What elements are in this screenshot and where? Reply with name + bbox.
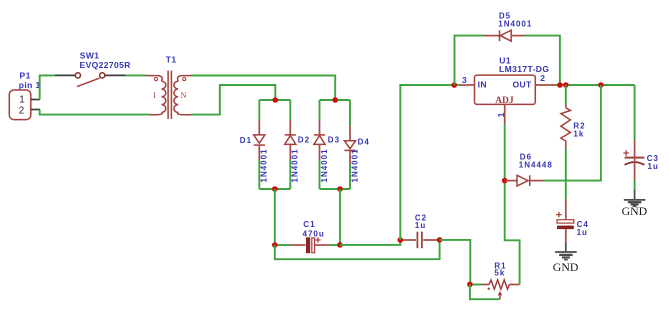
junction at U1 IN bbox=[451, 82, 457, 88]
wire D6 cathode up to OUT bbox=[544, 85, 601, 181]
junction C2 right bbox=[437, 237, 443, 243]
svg-text:D3: D3 bbox=[328, 136, 340, 145]
capacitor C1 bbox=[275, 237, 340, 253]
svg-text:1u: 1u bbox=[415, 221, 426, 230]
wire D3/D4 top rail bbox=[320, 99, 351, 101]
svg-text:1N4001: 1N4001 bbox=[350, 148, 359, 182]
wire bridge left output down bbox=[274, 189, 276, 245]
svg-text:IN: IN bbox=[478, 80, 487, 90]
junction D5 at OUT bbox=[557, 82, 563, 88]
svg-text:GND: GND bbox=[553, 260, 579, 274]
wire D1/D2 top rail bbox=[259, 99, 290, 101]
diode D3 bbox=[314, 100, 325, 189]
switch SW1 bbox=[55, 73, 126, 87]
capacitor C4 bbox=[556, 199, 574, 252]
svg-text:N: N bbox=[181, 91, 187, 100]
resistor R2 bbox=[561, 85, 571, 199]
svg-text:C1: C1 bbox=[303, 220, 315, 229]
junction R1 left bbox=[467, 282, 473, 288]
wire T1 bottom to D1/D2 rail bbox=[191, 85, 275, 115]
svg-text:1N4001: 1N4001 bbox=[498, 20, 532, 29]
wire OUT to C3 bbox=[634, 85, 636, 140]
U1 pin 2 stub bbox=[535, 84, 555, 86]
transformer T1 bbox=[146, 71, 191, 120]
diode D5 bbox=[484, 30, 525, 41]
wire C2 right to R1 bbox=[440, 240, 471, 285]
junction C1 right bbox=[337, 242, 343, 248]
junction C1 left bbox=[272, 242, 278, 248]
wire C2 left node up to U1 IN bbox=[400, 85, 454, 240]
wire IN node to U1 pin3 bbox=[454, 84, 461, 86]
wire OUT rail bbox=[555, 84, 635, 86]
svg-text:1: 1 bbox=[19, 95, 24, 106]
wire D1/D2 bottom rail bbox=[259, 188, 290, 190]
ground symbol below C4 bbox=[553, 252, 579, 274]
connector P1 bbox=[9, 90, 31, 120]
svg-text:I: I bbox=[153, 91, 156, 100]
junction on D1/D2 bottom rail bbox=[272, 186, 278, 192]
capacitor C3 bbox=[623, 140, 644, 191]
wire D5 to OUT node bbox=[525, 36, 560, 85]
svg-text:1N4001: 1N4001 bbox=[260, 148, 269, 182]
wire SW1 to T1 bbox=[125, 74, 146, 76]
capacitor C2 bbox=[400, 232, 439, 249]
svg-text:2: 2 bbox=[540, 73, 545, 83]
svg-text:1u: 1u bbox=[577, 228, 588, 237]
wire P1 pin2 to bottom rail bbox=[40, 110, 151, 115]
ground symbol below C3 bbox=[622, 190, 648, 218]
wire R1 wiper return bbox=[470, 284, 500, 299]
wire C1 to C2 bbox=[340, 240, 400, 245]
op-amp regulator U1 bbox=[475, 75, 536, 106]
diode D4 bbox=[344, 100, 355, 189]
svg-text:3: 3 bbox=[462, 75, 467, 85]
P1 pin 1 stub bbox=[31, 99, 40, 101]
wire negative return rail bbox=[275, 240, 440, 259]
diode D2 bbox=[285, 100, 296, 189]
svg-text:470u: 470u bbox=[303, 229, 325, 238]
junction ADJ / D6 anode bbox=[502, 178, 508, 184]
svg-text:1N4001: 1N4001 bbox=[320, 148, 329, 182]
wire ADJ down to R1 right bbox=[505, 124, 520, 284]
junction D6 branch at OUT bbox=[598, 82, 604, 88]
svg-text:GND: GND bbox=[622, 204, 648, 218]
svg-text:2: 2 bbox=[19, 105, 24, 116]
svg-text:1N4001: 1N4001 bbox=[291, 148, 300, 182]
P1 pin 2 stub bbox=[31, 109, 40, 111]
svg-text:D1: D1 bbox=[240, 136, 252, 145]
svg-text:1k: 1k bbox=[573, 130, 584, 139]
svg-text:1: 1 bbox=[496, 112, 506, 117]
junction on D3/D4 bottom rail bbox=[337, 186, 343, 192]
wire P1 pin1 to top rail bbox=[40, 75, 56, 99]
diode D1 bbox=[254, 100, 265, 189]
svg-text:1N4448: 1N4448 bbox=[519, 161, 553, 170]
svg-text:OUT: OUT bbox=[513, 80, 533, 90]
U1 pin 3 stub bbox=[460, 84, 474, 86]
junction R2 at OUT bbox=[563, 82, 569, 88]
svg-text:pin 1: pin 1 bbox=[19, 80, 41, 90]
resistor R1 (trimmer) bbox=[481, 280, 520, 299]
svg-text:1u: 1u bbox=[648, 162, 659, 171]
diode D6 bbox=[505, 175, 544, 186]
junction on D3/D4 top rail bbox=[332, 97, 338, 103]
svg-text:D2: D2 bbox=[298, 136, 310, 145]
junction on D1/D2 top rail bbox=[273, 97, 279, 103]
wire D3/D4 bottom rail bbox=[320, 188, 351, 190]
junction C2 left bbox=[398, 237, 404, 243]
svg-text:T1: T1 bbox=[166, 55, 177, 65]
U1 pin 1 (ADJ) stub bbox=[504, 104, 506, 124]
svg-text:5k: 5k bbox=[494, 269, 505, 278]
wire bridge right output down bbox=[339, 189, 341, 245]
svg-text:EVQ22705R: EVQ22705R bbox=[80, 60, 131, 70]
wire R1 left node bbox=[470, 284, 481, 286]
wire D5 protection loop bbox=[455, 36, 485, 85]
svg-text:D4: D4 bbox=[358, 137, 370, 146]
wire T1 top to D3/D4 rail bbox=[191, 76, 335, 101]
